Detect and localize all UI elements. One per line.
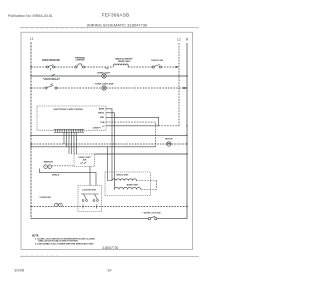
wire L1 feed dashed to L2 xyxy=(159,125,180,127)
svg-text:ELECTRONIC OVEN CONTROL: ELECTRONIC OVEN CONTROL xyxy=(54,109,84,111)
wire row3 lamp circuit (dashed to N) xyxy=(31,87,187,89)
oven lamp row3 xyxy=(102,86,106,90)
electronic oven control box U1 xyxy=(37,106,106,130)
oven sensor probe plug xyxy=(44,165,52,169)
wire P1 drop 6 xyxy=(76,132,78,154)
latch motor MDL xyxy=(167,142,171,146)
schematic border frame xyxy=(21,32,193,249)
connector P1 comb xyxy=(54,129,84,132)
wire mid bus line xyxy=(31,134,187,136)
bottom ruler line with ticks xyxy=(20,255,199,257)
L2 rail xyxy=(178,43,180,126)
wire EOC L1 feed xyxy=(106,125,159,127)
svg-text:19: 19 xyxy=(107,268,112,273)
svg-text:SENSOR: SENSOR xyxy=(44,162,54,164)
svg-text:BAKE UNIT: BAKE UNIT xyxy=(127,183,139,186)
bake element coil row1 xyxy=(114,64,129,67)
L1 rail xyxy=(30,42,32,219)
svg-text:318047730: 318047730 xyxy=(102,246,118,250)
oven lamp row2 xyxy=(102,74,106,78)
wire EOC bake output xyxy=(106,109,112,181)
lock cam switch 2 xyxy=(93,194,98,202)
wire EOC DLB output xyxy=(106,122,156,147)
door plug connector xyxy=(55,203,63,207)
wire sensor to switch box (dashed) xyxy=(52,165,74,167)
wire row1 bake circuit (dashed L1 to L2) xyxy=(31,66,176,68)
broil element coil xyxy=(112,179,137,181)
junction dots xyxy=(30,66,187,207)
wire lock circuit (dashed L1 to L2) xyxy=(31,206,187,208)
wire light line to N xyxy=(95,153,188,155)
wire broil to L2 (dashed) xyxy=(136,180,157,182)
check switch xyxy=(152,65,161,69)
oven selector switch xyxy=(46,65,54,71)
wire EOC MDL output xyxy=(106,117,159,126)
lock cam bus wire xyxy=(81,193,99,195)
lock relay switch xyxy=(45,84,57,90)
wire row2 oven light (solid to N) xyxy=(31,75,102,77)
wire bottom neutral line xyxy=(31,218,149,220)
arrow into L2 row1 xyxy=(176,66,179,68)
top ruler line with ticks xyxy=(20,27,199,29)
wire element jumper xyxy=(156,181,158,190)
svg-text:WIRING SCHEMATIC 318047730: WIRING SCHEMATIC 318047730 xyxy=(87,23,148,28)
wire DLB branch to broil xyxy=(108,147,113,181)
svg-text:*LOCK RELAY: *LOCK RELAY xyxy=(43,78,60,81)
svg-text:* DOOR LOCK SW: * DOOR LOCK SW xyxy=(143,213,161,215)
svg-text:AND LATCH IN UNLOCKED POSITION: AND LATCH IN UNLOCKED POSITION. xyxy=(38,240,78,243)
light switch row2 xyxy=(51,74,55,76)
wire box A to lock box xyxy=(89,167,91,186)
svg-text:* OVEN LIGHT 40W: * OVEN LIGHT 40W xyxy=(94,83,115,86)
svg-text:L2: L2 xyxy=(177,38,181,42)
svg-text:LIMITER: LIMITER xyxy=(76,60,85,62)
light switch contact xyxy=(81,162,87,164)
wire P1 drop 2 xyxy=(66,132,68,146)
svg-text:10/98: 10/98 xyxy=(14,268,25,273)
lock motor box xyxy=(78,186,102,212)
svg-text:L1: L1 xyxy=(30,37,34,41)
N rail xyxy=(186,43,188,219)
wire EOC broil output xyxy=(106,113,115,190)
svg-text:CHECK SW: CHECK SW xyxy=(151,60,164,62)
wire bake to L2 (dashed) xyxy=(141,189,157,191)
bake element coil xyxy=(115,187,141,189)
svg-text:BAKE: BAKE xyxy=(99,108,105,111)
svg-text:SW: SW xyxy=(83,160,86,162)
wire P1 drop 5 xyxy=(73,132,75,154)
svg-text:DLB: DLB xyxy=(100,122,105,124)
lock cam bottom contacts xyxy=(83,205,97,209)
svg-text:FEF366ASB: FEF366ASB xyxy=(102,13,130,18)
svg-text:LOCK MOTOR: LOCK MOTOR xyxy=(82,190,96,192)
svg-text:* DOOR SW: * DOOR SW xyxy=(39,197,51,199)
arrow into N row3 xyxy=(184,87,187,89)
thermal limiter xyxy=(75,64,85,68)
svg-text:SHIELD: SHIELD xyxy=(52,175,60,177)
svg-text:2585W 240V: 2585W 240V xyxy=(118,60,131,63)
lock cam switch 1 xyxy=(82,194,87,202)
wire P1 drop 3 xyxy=(68,132,70,154)
light switch box xyxy=(74,154,95,167)
svg-text:NOTE:: NOTE: xyxy=(32,236,39,238)
wire sensor shield line xyxy=(40,169,97,186)
svg-text:BROIL UNIT: BROIL UNIT xyxy=(117,175,130,177)
svg-text:OVEN SW-BAKE: OVEN SW-BAKE xyxy=(42,59,61,62)
wire P1 drop 1 xyxy=(63,132,65,144)
svg-text:OVEN LIGHT: OVEN LIGHT xyxy=(97,73,111,75)
wire latch motor line (dashed L1 to L2) xyxy=(31,143,187,145)
svg-text:BROIL: BROIL xyxy=(98,113,105,115)
svg-text:CONN P1: CONN P1 xyxy=(93,127,101,129)
svg-text:MOTOR: MOTOR xyxy=(165,138,173,140)
svg-text:2. DISCONNECT ALL POWER BEFORE: 2. DISCONNECT ALL POWER BEFORE SERVICING… xyxy=(35,242,94,245)
element box outline xyxy=(105,172,151,196)
wire DLB mid line (solid from L1) xyxy=(31,146,156,148)
svg-text:Publication No: 5995A-00-51: Publication No: 5995A-00-51 xyxy=(8,14,53,18)
wire P1 drop 4 xyxy=(71,132,73,154)
door lock switch xyxy=(148,216,157,220)
